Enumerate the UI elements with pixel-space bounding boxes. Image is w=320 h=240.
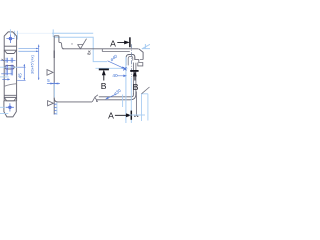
bottom weld symbol [92,95,98,102]
left view cap bottom line [4,45,16,47]
middle view sheet edge vertical [53,36,55,115]
top hole centerline extension [9,29,11,34]
light tick horizontal bottom right [129,114,145,116]
chamfer dim arrows [36,48,38,52]
section A top bar [129,37,131,47]
left view band line [4,49,16,51]
extension stubs above pentagon [15,31,18,40]
section A top arrow [117,41,128,44]
bottom hole crosshair [6,103,14,111]
right view top chamfer [139,49,143,60]
left view body sides [4,46,16,101]
dim below slot verticals [6,70,13,76]
lower construction line left [0,113,8,115]
section B left bar [99,68,109,70]
section A bottom arrow [115,114,130,117]
section A bottom bar [130,111,132,120]
sheet edge darker segment [53,51,55,59]
dia40 leader [108,61,124,68]
section B right bar [130,70,138,72]
top hole crosshair [6,34,14,43]
svg-text:B: B [101,81,107,91]
top hole [9,37,12,40]
40 dim line [118,75,126,77]
extension light vertical [122,95,124,108]
slot centerline [0,66,18,68]
surface finish symbol top [78,39,87,49]
construction centerline horizontal top [15,32,52,34]
right view hook inner [128,57,133,66]
construction vertical at middle view top [52,29,54,37]
centerline dash-dot vertical [131,44,133,77]
right small dim box [142,94,148,121]
extension ticks above slot [6,58,13,63]
tick on top edge [71,43,73,45]
bottom hole centerline extension left [0,106,6,108]
svg-text:40: 40 [112,73,118,78]
chamfer dim vertical line [38,45,40,80]
right view plate verticals [133,63,136,94]
middle view hatch rungs [54,104,57,114]
left view lower band lines [4,95,16,97]
construction line mid left [0,76,9,78]
tiny dim dashes [134,115,138,117]
right view top edge [63,48,139,50]
right view hidden vertical [135,92,137,117]
section B right arrow [134,72,137,81]
centerline light vertical long [125,57,127,123]
chamfer dim lines [18,49,38,52]
45 dim arrows [24,65,26,80]
dia30 leader [107,94,116,98]
leader above slot [2,59,5,61]
left view bend tangent curve [4,84,16,87]
annotation highlight box [55,37,108,61]
right view hem steps [135,56,143,66]
right dim leader diagonal [142,87,150,94]
bottom band left line [54,98,92,102]
svg-text:30x45°(4x): 30x45°(4x) [30,54,35,74]
left view V-groove trapezoid [4,50,16,53]
bottom band double lines [97,97,132,100]
5 dim extension [53,84,55,98]
left view lower groove trapezoid [4,97,16,100]
section B left arrow [103,71,106,81]
bottom band step [96,100,98,102]
chamfer dim vertical arrows [38,45,40,80]
middle view weld triangle upper [47,70,53,76]
middle view top step [54,36,64,49]
dim line above slot [1,59,16,61]
45 dim line [23,64,25,80]
slot hole ticks [6,65,13,70]
bottom band right J-bend [130,92,136,100]
right view hook outer [126,55,135,66]
45 dim extension ticks [17,67,25,80]
5 dim line [47,82,60,85]
tangent cross mark [123,67,126,70]
svg-text:A: A [108,111,114,121]
svg-text:45: 45 [18,73,23,79]
left view bottom cap [4,101,16,117]
svg-text:B: B [133,82,139,92]
hidden feature dim [2,79,9,81]
svg-text:A: A [110,38,116,48]
centerline horizontal right view [96,67,128,69]
centerline light vertical lower [130,78,132,124]
bottom hole [8,106,11,109]
slot obround [4,65,14,69]
dim line below slot [1,73,12,75]
left view outline pentagon top [4,32,16,46]
middle view inner edge [56,102,58,115]
right view inner top edge [102,49,130,52]
construction corner top right [142,44,150,49]
middle view weld triangle lower [48,101,54,106]
